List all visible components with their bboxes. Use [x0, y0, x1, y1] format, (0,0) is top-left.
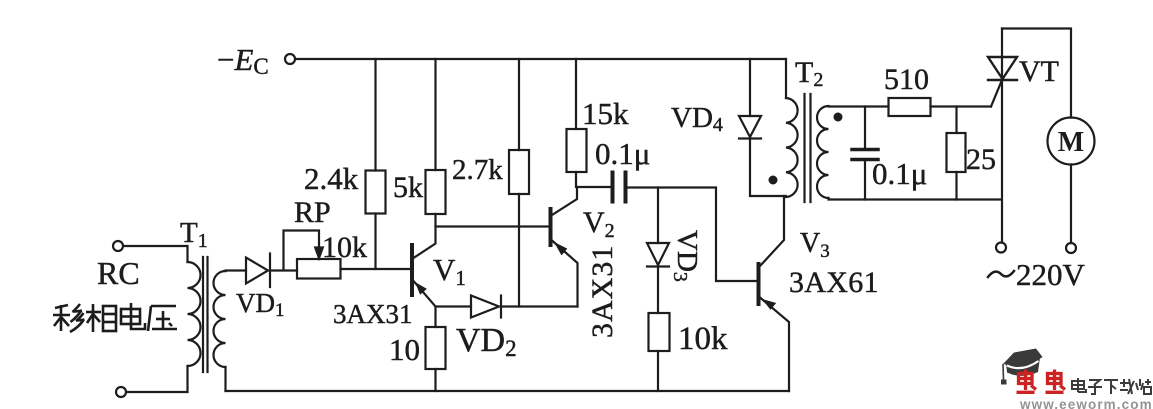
- svg-text:−EC: −EC: [217, 42, 269, 79]
- svg-text:15k: 15k: [582, 96, 629, 131]
- svg-text:5k: 5k: [393, 171, 423, 204]
- svg-text:www.eeworm.com: www.eeworm.com: [1019, 397, 1153, 409]
- svg-text:VD4: VD4: [671, 102, 723, 136]
- svg-text:25: 25: [966, 143, 996, 176]
- svg-text:10k: 10k: [322, 231, 367, 264]
- svg-text:V2: V2: [583, 206, 615, 242]
- svg-text:T1: T1: [180, 217, 208, 252]
- svg-text:220V: 220V: [1016, 257, 1086, 292]
- svg-text:3AX31: 3AX31: [333, 299, 413, 329]
- svg-text:3AX61: 3AX61: [789, 266, 879, 299]
- svg-text:V3: V3: [800, 228, 830, 262]
- svg-text:RC: RC: [97, 255, 140, 291]
- svg-text:VD2: VD2: [456, 322, 517, 361]
- svg-text:M: M: [1058, 127, 1084, 158]
- svg-text:0.1μ: 0.1μ: [595, 136, 650, 171]
- svg-text:10: 10: [389, 332, 420, 367]
- svg-text:510: 510: [884, 63, 929, 96]
- svg-text:RP: RP: [294, 196, 331, 229]
- svg-text:T2: T2: [795, 56, 823, 91]
- svg-text:VD3: VD3: [669, 230, 703, 282]
- svg-text:V1: V1: [433, 252, 466, 290]
- svg-text:0.1μ: 0.1μ: [872, 156, 927, 191]
- svg-text:10k: 10k: [678, 321, 728, 357]
- svg-text:2.7k: 2.7k: [452, 154, 503, 186]
- svg-text:3AX31: 3AX31: [586, 245, 619, 338]
- svg-text:2.4k: 2.4k: [304, 161, 359, 196]
- svg-text:VT: VT: [1019, 55, 1059, 88]
- svg-text:VD1: VD1: [236, 288, 285, 321]
